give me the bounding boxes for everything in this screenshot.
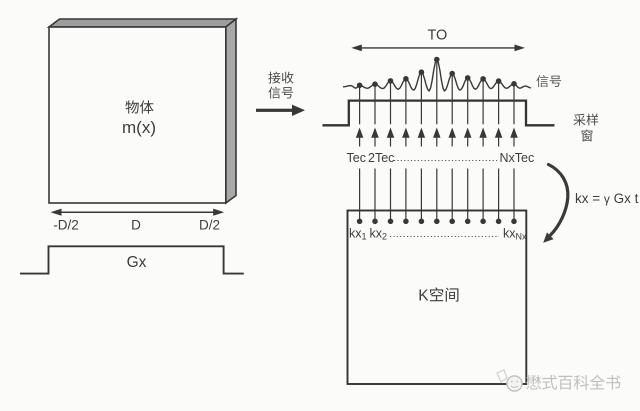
svg-text:-D/2: -D/2 <box>53 218 79 233</box>
svg-text:TO: TO <box>427 28 447 44</box>
svg-text:Tec: Tec <box>347 151 366 165</box>
svg-text:2Tec: 2Tec <box>368 151 394 165</box>
svg-text:kx = γ Gx t: kx = γ Gx t <box>575 191 639 206</box>
svg-text:Gx: Gx <box>127 254 147 271</box>
svg-text:D/2: D/2 <box>199 218 220 233</box>
svg-text:D: D <box>131 218 141 233</box>
svg-text:K: K <box>418 288 429 305</box>
svg-text:NxTec: NxTec <box>500 151 535 165</box>
svg-text:m(x): m(x) <box>122 118 156 137</box>
